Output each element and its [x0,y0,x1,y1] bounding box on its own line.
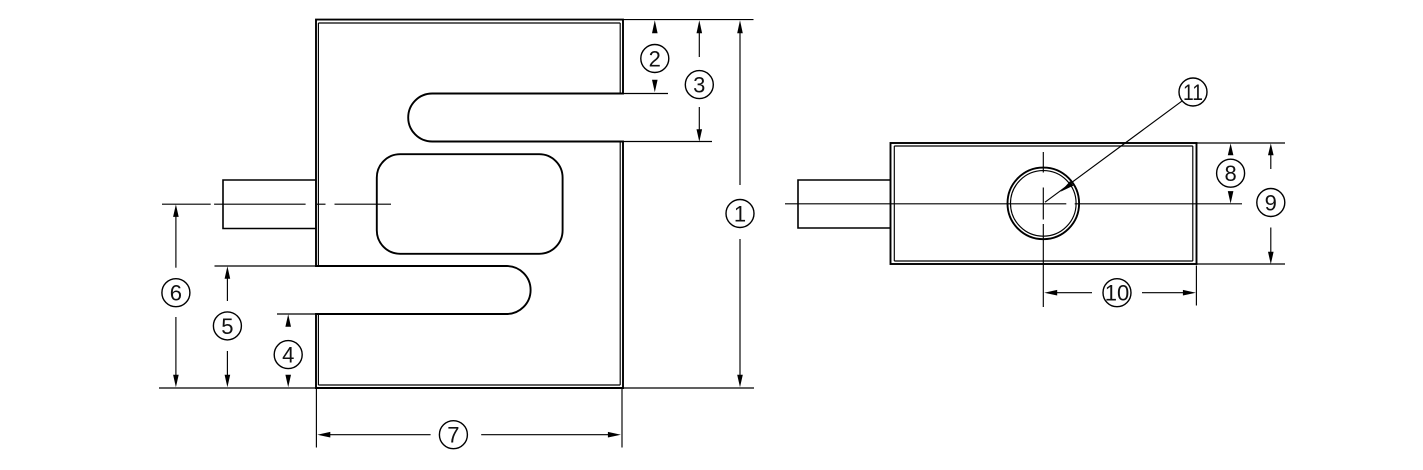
svg-text:10: 10 [1105,281,1129,306]
svg-text:2: 2 [649,47,661,72]
svg-text:4: 4 [282,343,294,368]
svg-text:6: 6 [170,281,182,306]
svg-text:7: 7 [447,423,459,448]
svg-text:9: 9 [1265,191,1277,216]
svg-text:5: 5 [221,314,233,339]
svg-text:3: 3 [693,73,705,98]
svg-text:11: 11 [1183,80,1203,105]
svg-text:8: 8 [1224,161,1236,186]
svg-text:1: 1 [734,202,746,227]
